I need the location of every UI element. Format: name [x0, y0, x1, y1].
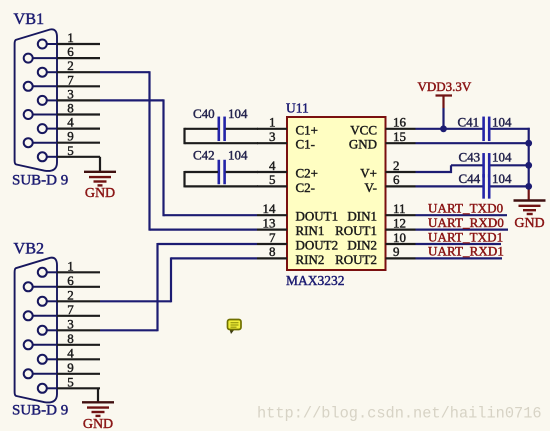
svg-text:GND: GND [349, 137, 377, 152]
U11 right pin 15 (GND) [349, 129, 416, 152]
VB1 pin 9 [24, 129, 100, 148]
wire net VB1 pin2 to U11 RIN1 (pin 13) [100, 71, 257, 230]
svg-text:ROUT2: ROUT2 [335, 252, 377, 267]
svg-text:12: 12 [393, 215, 406, 230]
svg-text:GND: GND [514, 216, 544, 231]
net label UART_TXD0 [428, 201, 503, 216]
svg-text:V+: V+ [360, 166, 377, 181]
svg-text:9: 9 [67, 360, 74, 375]
svg-text:7: 7 [269, 230, 276, 245]
svg-text:8: 8 [67, 101, 74, 116]
capacitor C44 designator label [459, 171, 481, 186]
svg-text:6: 6 [67, 44, 74, 59]
capacitor C43 [484, 153, 490, 178]
svg-text:VB1: VB1 [14, 10, 45, 28]
U11 part number label MAX3232 [286, 273, 345, 288]
junction dot C43/bus [525, 162, 532, 169]
connector VB1 body [15, 29, 57, 171]
U11 right pin 9 (ROUT2) [335, 244, 415, 267]
wire U11 pin15 GND row [416, 142, 529, 144]
capacitor C40 value label 104 [228, 106, 248, 121]
capacitor C42 designator label [193, 147, 215, 162]
svg-text:GND: GND [83, 417, 113, 431]
connector VB2 designator label [14, 240, 45, 258]
svg-text:RIN1: RIN1 [296, 223, 325, 238]
svg-text:C2+: C2+ [296, 166, 319, 181]
svg-text:C43: C43 [459, 150, 481, 165]
svg-text:1: 1 [67, 258, 74, 273]
VB1 pin 8 [24, 101, 100, 120]
IC U11 MAX3232 body [287, 117, 386, 270]
svg-text:5: 5 [67, 143, 74, 158]
VB1 pin 5 [38, 143, 100, 162]
watermark text [257, 404, 542, 422]
net label UART_RXD1 [428, 244, 504, 259]
U11 left pin 7 (DOUT2) [257, 230, 338, 253]
wire U11 pin16 VCC row [416, 128, 530, 130]
capacitor C41 value label 104 [492, 115, 512, 130]
U11 left pin 1 (C1+) [257, 115, 318, 138]
svg-text:104: 104 [228, 106, 248, 121]
VB2 pin 9 [24, 360, 100, 379]
U11 right pin 6 (V-) [364, 172, 415, 195]
svg-text:3: 3 [67, 316, 74, 331]
svg-text:8: 8 [269, 244, 276, 259]
junction dot pin15/bus [525, 140, 532, 147]
power symbol VDD3.3V [418, 79, 472, 129]
VB1 pin 1 [38, 30, 100, 49]
svg-text:5: 5 [67, 374, 74, 389]
svg-text:5: 5 [269, 172, 276, 187]
svg-text:DOUT1: DOUT1 [296, 209, 339, 224]
svg-text:16: 16 [393, 115, 407, 130]
junction dot VDD / pin16 [440, 125, 447, 132]
svg-text:C41: C41 [458, 115, 480, 130]
svg-text:4: 4 [67, 345, 74, 360]
U11 left pin 3 (C1-) [257, 129, 315, 152]
svg-text:VCC: VCC [350, 122, 377, 137]
U11 left pin 5 (C2-) [257, 172, 315, 195]
net label UART_TXD1 [428, 229, 503, 244]
svg-text:U11: U11 [286, 101, 309, 116]
svg-text:ROUT1: ROUT1 [335, 223, 377, 238]
svg-text:SUB-D 9: SUB-D 9 [12, 403, 68, 419]
wire net VB1 pin3 to U11 DOUT1 (pin 14) [100, 99, 257, 216]
wire C40 loop (U11 pins 1-3) [185, 128, 259, 144]
VB2 pin 4 [38, 345, 100, 364]
svg-text:104: 104 [492, 115, 512, 130]
wire C42 loop (U11 pins 4-5) [185, 171, 259, 187]
svg-text:C1-: C1- [296, 137, 316, 152]
svg-text:104: 104 [492, 171, 512, 186]
svg-text:C1+: C1+ [296, 122, 319, 137]
svg-text:1: 1 [67, 30, 74, 45]
VB1 pin 2 [38, 58, 100, 77]
VB1 pin 6 [24, 44, 100, 63]
svg-text:UART_TXD0: UART_TXD0 [428, 201, 503, 216]
svg-text:7: 7 [67, 72, 74, 87]
U11 left pin 14 (DOUT1) [257, 201, 338, 224]
svg-text:C2-: C2- [296, 180, 316, 195]
svg-text:UART_RXD1: UART_RXD1 [428, 244, 504, 259]
capacitor C42 value label 104 [228, 147, 248, 162]
wire net UART_TXD1 [416, 243, 502, 245]
U11 right pin 12 (ROUT1) [335, 215, 415, 238]
svg-text:104: 104 [492, 150, 512, 165]
wire net VB2 pin2 to U11 RIN2 (pin 8) [100, 257, 257, 302]
svg-text:MAX3232: MAX3232 [286, 273, 345, 288]
VB2 pin 2 [38, 287, 100, 306]
VB2 pin 3 [38, 316, 100, 335]
svg-text:4: 4 [269, 158, 276, 173]
capacitor C43 designator label [459, 150, 481, 165]
VB2 pin 7 [24, 302, 100, 321]
svg-text:10: 10 [393, 230, 406, 245]
svg-text:V-: V- [364, 180, 377, 195]
svg-text:UART_TXD1: UART_TXD1 [428, 229, 503, 244]
U11 right pin 11 (DIN1) [347, 201, 415, 224]
capacitor C41 [484, 117, 490, 142]
svg-text:9: 9 [67, 129, 74, 144]
svg-text:RIN2: RIN2 [296, 252, 325, 267]
svg-text:VDD3.3V: VDD3.3V [418, 79, 472, 94]
svg-text:2: 2 [67, 58, 74, 73]
svg-text:11: 11 [393, 201, 406, 216]
svg-text:8: 8 [67, 331, 74, 346]
connector VB1 type label SUB-D 9 [12, 172, 68, 188]
svg-text:VB2: VB2 [14, 240, 45, 258]
VB2 pin 6 [24, 273, 100, 292]
svg-text:3: 3 [269, 129, 276, 144]
svg-text:15: 15 [393, 129, 406, 144]
net label UART_RXD0 [428, 215, 504, 230]
U11 left pin 13 (RIN1) [257, 215, 324, 238]
svg-text:7: 7 [67, 302, 74, 317]
VB1 pin 4 [38, 115, 100, 134]
svg-text:1: 1 [269, 115, 276, 130]
capacitor C40 designator label [193, 106, 215, 121]
wire net UART_TXD0 [416, 214, 508, 216]
ground bus vertical wire [528, 128, 530, 200]
U11 left pin 4 (C2+) [257, 158, 318, 181]
ground symbol under VB2 [82, 388, 114, 431]
ground symbol right [514, 201, 546, 232]
wire net VB2 pin3 to U11 DOUT2 (pin 7) [100, 243, 257, 331]
capacitor C41 designator label [458, 115, 480, 130]
svg-text:6: 6 [393, 172, 400, 187]
U11 right pin 2 (V+) [360, 158, 415, 181]
connector VB2 body [15, 258, 57, 403]
svg-text:9: 9 [393, 244, 400, 259]
wire U11 pin2 V+ row with jog [416, 165, 529, 173]
ground symbol under VB1 [84, 157, 116, 201]
svg-text:13: 13 [263, 215, 276, 230]
VB2 pin 5 [38, 374, 100, 393]
svg-text:3: 3 [67, 86, 74, 101]
svg-text:GND: GND [85, 186, 115, 201]
svg-text:UART_RXD0: UART_RXD0 [428, 215, 504, 230]
VB1 pin 3 [38, 86, 100, 105]
wire net UART_RXD0 [416, 229, 509, 231]
svg-text:DIN2: DIN2 [347, 238, 377, 253]
connector VB2 type label SUB-D 9 [12, 403, 68, 419]
svg-text:6: 6 [67, 273, 74, 288]
svg-text:104: 104 [228, 147, 248, 162]
U11 right pin 10 (DIN2) [347, 230, 415, 253]
svg-text:C40: C40 [193, 106, 215, 121]
connector VB1 designator label [14, 10, 45, 28]
svg-text:2: 2 [67, 287, 74, 302]
svg-text:C44: C44 [459, 171, 481, 186]
svg-text:http://blog.csdn.net/hailin071: http://blog.csdn.net/hailin0716 [257, 404, 542, 422]
capacitor C43 value label 104 [492, 150, 512, 165]
capacitor C44 value label 104 [492, 171, 512, 186]
svg-text:2: 2 [393, 158, 400, 173]
U11 left pin 8 (RIN2) [257, 244, 324, 267]
capacitor C40 [219, 117, 225, 142]
svg-text:DIN1: DIN1 [347, 209, 377, 224]
VB1 pin 7 [24, 72, 100, 91]
VB2 pin 8 [24, 331, 100, 350]
wire U11 pin6 V- row [416, 185, 529, 187]
junction dot C44/bus [525, 183, 532, 190]
svg-text:C42: C42 [193, 147, 215, 162]
svg-text:4: 4 [67, 115, 74, 130]
VB2 pin 1 [38, 258, 100, 277]
U11 designator label [286, 101, 309, 116]
capacitor C44 [484, 174, 490, 199]
note icon (yellow comment bubble) [228, 320, 242, 335]
svg-text:14: 14 [263, 201, 277, 216]
wire net UART_RXD1 [416, 257, 503, 259]
svg-text:DOUT2: DOUT2 [296, 238, 339, 253]
svg-text:SUB-D 9: SUB-D 9 [12, 172, 68, 188]
capacitor C42 [219, 160, 225, 185]
U11 right pin 16 (VCC) [350, 115, 415, 138]
